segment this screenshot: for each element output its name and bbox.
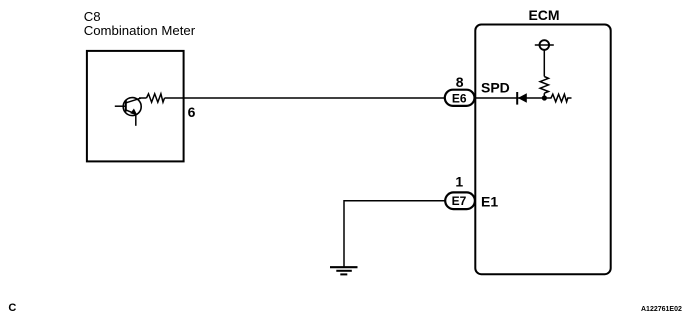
transistor Q1 (115, 98, 141, 126)
svg-text:A122761E02: A122761E02 (641, 306, 682, 313)
svg-text:6: 6 (188, 104, 196, 120)
svg-text:1: 1 (455, 173, 463, 189)
ground (330, 267, 358, 274)
resistor horizontal in ECM (547, 94, 572, 102)
svg-text:8: 8 (456, 74, 464, 90)
wire E1: E7 to ground (344, 201, 446, 267)
wire power to resistor (543, 50, 545, 77)
svg-text:E6: E6 (452, 91, 467, 105)
svg-text:SPD: SPD (481, 80, 510, 96)
resistor vertical in ECM (540, 77, 548, 94)
wire SPD: meter to E6 (139, 97, 147, 99)
wire resistor to node (543, 93, 545, 98)
connector E7 (445, 192, 475, 209)
node junction (542, 95, 547, 100)
power symbol (535, 40, 554, 50)
svg-text:ECM: ECM (528, 7, 559, 23)
svg-text:C: C (8, 302, 16, 314)
svg-text:Combination Meter: Combination Meter (84, 23, 196, 38)
svg-text:E1: E1 (481, 194, 498, 210)
connector E6 (445, 90, 475, 106)
combination meter box (87, 51, 184, 161)
resistor in meter (147, 94, 165, 102)
svg-text:E7: E7 (452, 194, 467, 208)
diode D1 (517, 92, 527, 105)
svg-text:C8: C8 (84, 9, 101, 24)
ECM box (475, 25, 610, 275)
